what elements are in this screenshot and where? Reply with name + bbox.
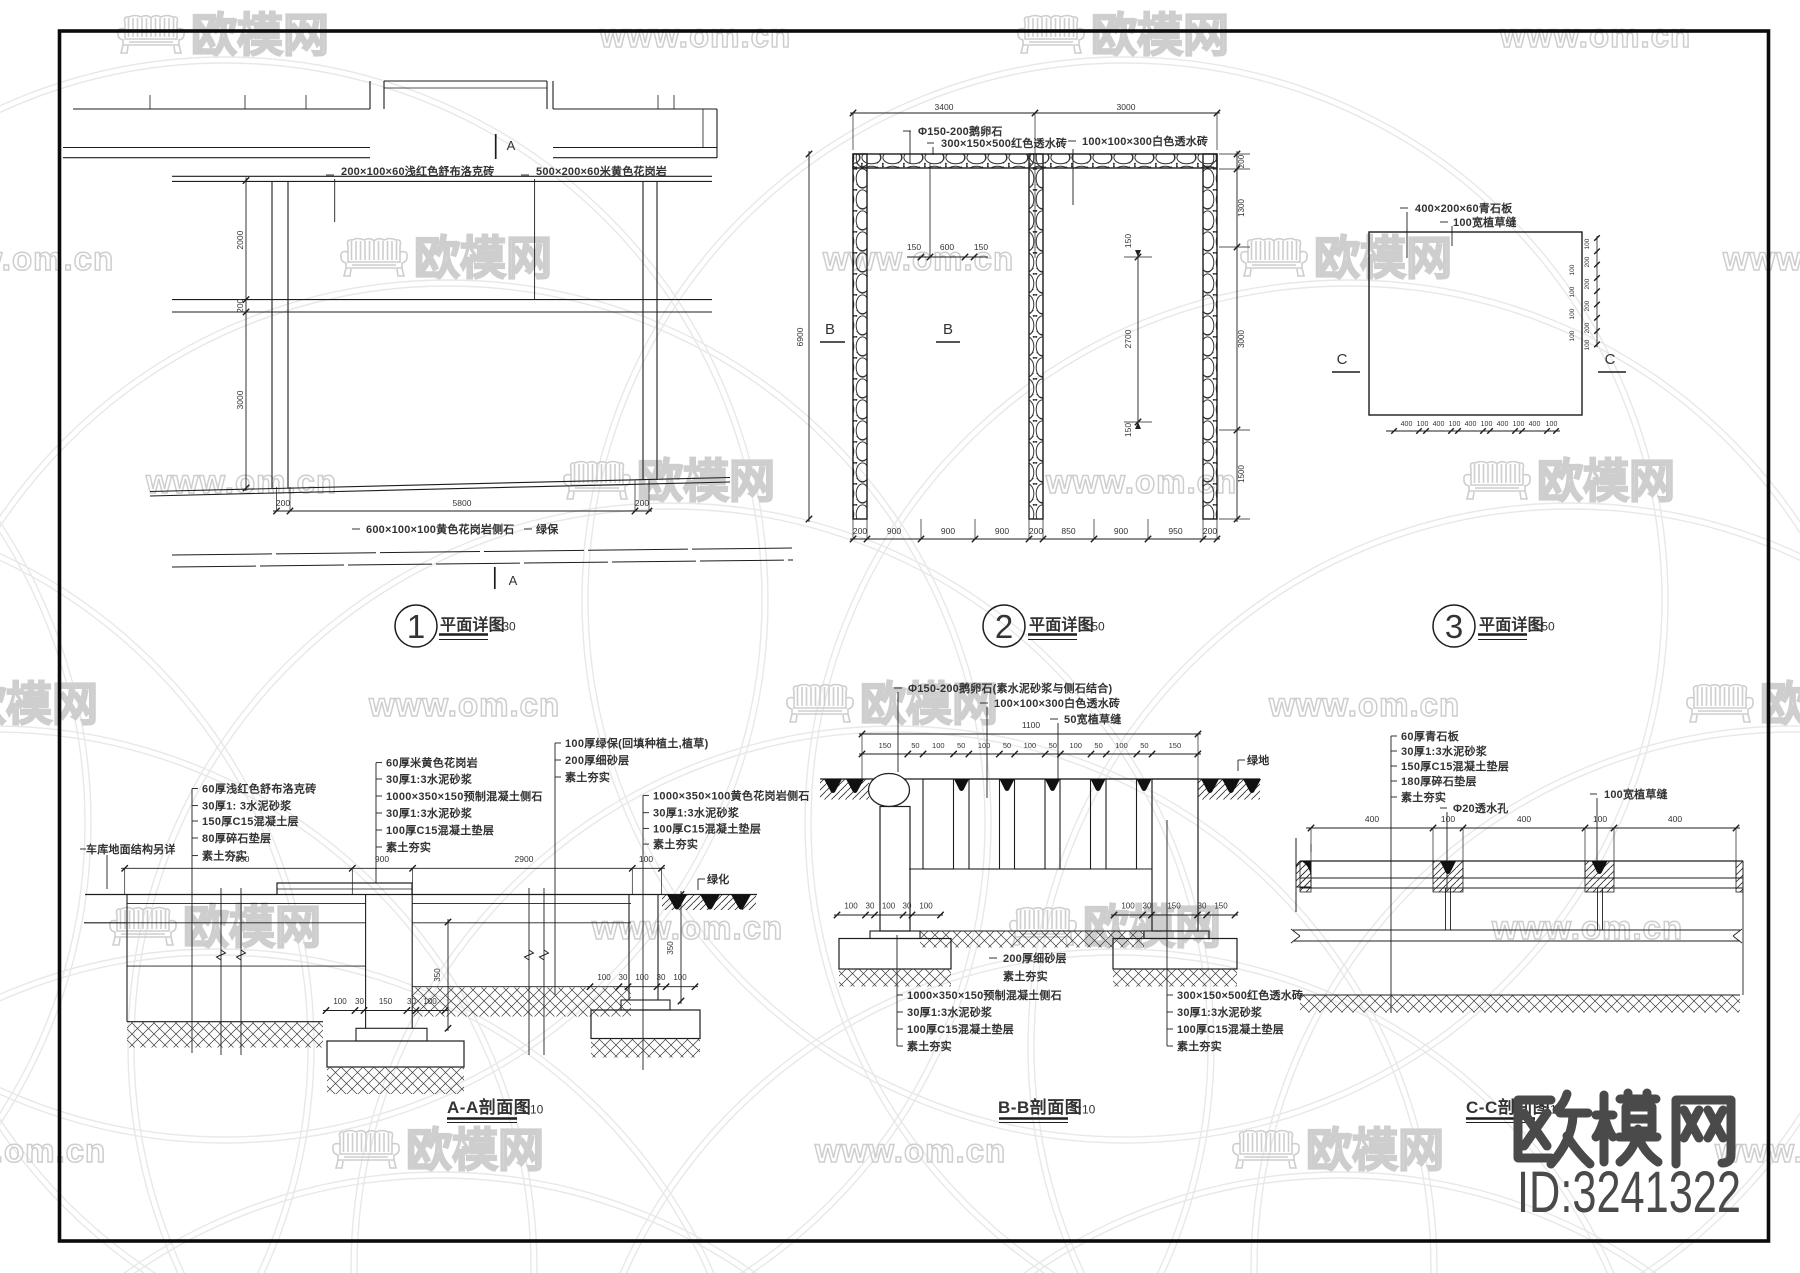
svg-text:100: 100 xyxy=(1569,330,1576,341)
site watermark logo OMW bottom-right xyxy=(1518,1093,1731,1164)
svg-text:www.om.cn: www.om.cn xyxy=(1268,686,1460,723)
svg-text:50: 50 xyxy=(1140,741,1148,750)
svg-text:车库地面结构另详: 车库地面结构另详 xyxy=(86,842,176,856)
svg-text:100厚C15混凝土垫层: 100厚C15混凝土垫层 xyxy=(386,823,494,837)
svg-text:100: 100 xyxy=(597,973,611,982)
svg-text:1300: 1300 xyxy=(1237,199,1246,217)
svg-text:www.om.cn: www.om.cn xyxy=(1722,240,1800,277)
svg-text:1000×350×150预制混凝土侧石: 1000×350×150预制混凝土侧石 xyxy=(386,789,543,803)
plan detail 3 (1:50) stone slab paving xyxy=(1332,201,1626,434)
svg-text:200×100×60浅红色舒布洛克砖: 200×100×60浅红色舒布洛克砖 xyxy=(341,164,494,178)
svg-text:100厚C15混凝土垫层: 100厚C15混凝土垫层 xyxy=(653,821,761,835)
svg-text:200: 200 xyxy=(1584,278,1591,289)
svg-text:100: 100 xyxy=(1546,421,1558,428)
svg-text:B: B xyxy=(943,321,953,338)
svg-text:B-B剖面图: B-B剖面图 xyxy=(998,1097,1082,1117)
svg-text:500×200×60米黄色花岗岩: 500×200×60米黄色花岗岩 xyxy=(536,164,667,178)
svg-text:950: 950 xyxy=(1168,526,1182,536)
svg-text:50: 50 xyxy=(911,741,919,750)
svg-text:30: 30 xyxy=(657,973,666,982)
svg-text:1:10: 1:10 xyxy=(520,1103,544,1117)
svg-text:200: 200 xyxy=(853,526,867,536)
svg-text:www.om.cn: www.om.cn xyxy=(814,1132,1006,1169)
svg-text:欧模网: 欧模网 xyxy=(637,455,775,507)
svg-text:www.om.cn: www.om.cn xyxy=(145,463,337,500)
svg-text:30: 30 xyxy=(407,997,416,1006)
svg-text:www.om.cn: www.om.cn xyxy=(599,17,791,54)
svg-text:900: 900 xyxy=(941,526,955,536)
svg-text:100厚C15混凝土垫层: 100厚C15混凝土垫层 xyxy=(1177,1022,1284,1036)
svg-text:50: 50 xyxy=(1094,741,1102,750)
svg-text:100: 100 xyxy=(1584,339,1591,350)
svg-text:欧模网: 欧模网 xyxy=(1760,678,1800,730)
svg-text:100: 100 xyxy=(1584,238,1591,249)
svg-text:400: 400 xyxy=(1497,421,1509,428)
svg-text:180厚碎石垫层: 180厚碎石垫层 xyxy=(1401,774,1477,788)
svg-text:C: C xyxy=(1605,351,1616,368)
svg-text:100宽植草缝: 100宽植草缝 xyxy=(1604,787,1668,801)
svg-text:100: 100 xyxy=(1069,741,1082,750)
svg-text:1500: 1500 xyxy=(1237,465,1246,483)
svg-text:30厚1:3水泥砂浆: 30厚1:3水泥砂浆 xyxy=(1401,744,1488,758)
svg-text:900: 900 xyxy=(1114,526,1128,536)
svg-text:欧模网: 欧模网 xyxy=(1537,455,1675,507)
svg-text:400×200×60青石板: 400×200×60青石板 xyxy=(1415,201,1513,215)
title: plan detail 1 xyxy=(395,605,437,647)
svg-text:100: 100 xyxy=(1481,421,1493,428)
svg-text:欧模网: 欧模网 xyxy=(191,9,329,61)
svg-text:350: 350 xyxy=(666,941,675,955)
svg-text:欧模网: 欧模网 xyxy=(414,232,552,284)
svg-text:5800: 5800 xyxy=(453,498,472,508)
svg-text:1:50: 1:50 xyxy=(1531,620,1555,634)
svg-text:欧模网: 欧模网 xyxy=(0,678,98,730)
svg-text:A: A xyxy=(509,573,518,588)
svg-text:30: 30 xyxy=(355,997,364,1006)
svg-text:www.om.cn: www.om.cn xyxy=(368,686,560,723)
svg-text:A: A xyxy=(507,138,516,153)
svg-text:100: 100 xyxy=(639,854,653,864)
svg-text:1:50: 1:50 xyxy=(1081,620,1105,634)
light watermark tile grid xyxy=(118,16,184,54)
svg-text:30厚1:3水泥砂浆: 30厚1:3水泥砂浆 xyxy=(907,1005,993,1019)
svg-text:3: 3 xyxy=(1445,608,1463,645)
svg-text:www.om.cn: www.om.cn xyxy=(1491,909,1683,946)
svg-text:150: 150 xyxy=(1169,741,1182,750)
svg-text:100: 100 xyxy=(1417,421,1429,428)
svg-text:100: 100 xyxy=(882,902,896,911)
svg-text:100: 100 xyxy=(932,741,945,750)
svg-text:150: 150 xyxy=(974,242,988,252)
svg-text:30厚1:3水泥砂浆: 30厚1:3水泥砂浆 xyxy=(386,772,473,786)
svg-text:30厚1:3水泥砂浆: 30厚1:3水泥砂浆 xyxy=(386,806,473,820)
svg-text:900: 900 xyxy=(995,526,1009,536)
svg-text:150: 150 xyxy=(1167,902,1181,911)
svg-text:www.om.cn: www.om.cn xyxy=(1499,17,1691,54)
svg-text:1: 1 xyxy=(407,608,425,645)
svg-text:100: 100 xyxy=(1441,814,1455,824)
svg-text:欧模网: 欧模网 xyxy=(406,1124,544,1176)
svg-text:100: 100 xyxy=(1121,902,1135,911)
svg-text:素土夯实: 素土夯实 xyxy=(565,770,610,784)
svg-text:素土夯实: 素土夯实 xyxy=(1177,1039,1222,1053)
svg-text:50: 50 xyxy=(1049,741,1057,750)
svg-text:绿地: 绿地 xyxy=(1247,753,1269,767)
svg-text:6900: 6900 xyxy=(795,327,805,346)
svg-text:100: 100 xyxy=(333,997,347,1006)
svg-text:100: 100 xyxy=(673,973,687,982)
svg-text:100: 100 xyxy=(978,741,991,750)
svg-text:Φ20透水孔: Φ20透水孔 xyxy=(1453,801,1508,815)
plan detail 2 (1:50) cobble-edged paving xyxy=(795,102,1250,542)
svg-text:100宽植草缝: 100宽植草缝 xyxy=(1453,215,1517,229)
svg-text:200厚细砂层: 200厚细砂层 xyxy=(565,753,629,767)
svg-text:600: 600 xyxy=(940,242,954,252)
svg-text:2000: 2000 xyxy=(235,230,245,249)
svg-text:200: 200 xyxy=(1584,300,1591,311)
svg-text:100: 100 xyxy=(1115,741,1128,750)
svg-text:欧模网: 欧模网 xyxy=(1091,9,1229,61)
svg-text:B: B xyxy=(825,321,835,338)
svg-text:400: 400 xyxy=(1365,814,1379,824)
svg-text:60厚米黄色花岗岩: 60厚米黄色花岗岩 xyxy=(386,756,478,770)
svg-text:60厚青石板: 60厚青石板 xyxy=(1401,729,1460,743)
svg-text:400: 400 xyxy=(1517,814,1531,824)
svg-text:200: 200 xyxy=(635,498,649,508)
svg-text:1:10: 1:10 xyxy=(1072,1103,1096,1117)
svg-text:100: 100 xyxy=(1569,264,1576,275)
svg-text:100: 100 xyxy=(1593,814,1607,824)
svg-text:素土夯实: 素土夯实 xyxy=(386,840,431,854)
svg-text:100: 100 xyxy=(1569,308,1576,319)
svg-text:200: 200 xyxy=(1237,154,1246,168)
svg-text:100: 100 xyxy=(1513,421,1525,428)
svg-text:素土夯实: 素土夯实 xyxy=(907,1039,952,1053)
svg-text:100×100×300白色透水砖: 100×100×300白色透水砖 xyxy=(1082,134,1208,148)
svg-text:100: 100 xyxy=(1449,421,1461,428)
svg-text:3000: 3000 xyxy=(235,390,245,409)
svg-text:30: 30 xyxy=(1143,902,1152,911)
svg-text:1000×350×100黄色花岗岩侧石: 1000×350×100黄色花岗岩侧石 xyxy=(653,788,810,802)
svg-text:1000×350×150预制混凝土侧石: 1000×350×150预制混凝土侧石 xyxy=(907,988,1062,1002)
svg-text:150: 150 xyxy=(1123,423,1133,437)
svg-text:100厚绿保(回填种植土,植草): 100厚绿保(回填种植土,植草) xyxy=(565,736,709,750)
svg-text:150: 150 xyxy=(1214,902,1228,911)
svg-text:素土夯实: 素土夯实 xyxy=(653,837,698,851)
svg-text:欧模网: 欧模网 xyxy=(1314,232,1452,284)
svg-text:300×150×500红色透水砖: 300×150×500红色透水砖 xyxy=(941,136,1067,150)
svg-text:C: C xyxy=(1337,351,1348,368)
svg-text:100: 100 xyxy=(635,973,649,982)
svg-text:2900: 2900 xyxy=(515,854,534,864)
svg-text:200: 200 xyxy=(276,498,290,508)
svg-text:1100: 1100 xyxy=(1022,720,1041,730)
svg-text:400: 400 xyxy=(1465,421,1477,428)
svg-text:50宽植草缝: 50宽植草缝 xyxy=(1064,712,1121,726)
svg-text:600×100×100黄色花岗岩侧石: 600×100×100黄色花岗岩侧石 xyxy=(366,522,515,536)
svg-text:100厚C15混凝土垫层: 100厚C15混凝土垫层 xyxy=(907,1022,1014,1036)
svg-text:素土夯实: 素土夯实 xyxy=(1003,969,1048,983)
svg-text:400: 400 xyxy=(1529,421,1541,428)
svg-text:200厚细砂层: 200厚细砂层 xyxy=(1003,951,1067,965)
svg-text:A-A剖面图: A-A剖面图 xyxy=(447,1097,531,1117)
section A-A (1:10) xyxy=(80,736,810,1094)
svg-text:3400: 3400 xyxy=(935,102,954,112)
svg-text:150: 150 xyxy=(379,997,393,1006)
svg-text:100: 100 xyxy=(844,902,858,911)
svg-text:100: 100 xyxy=(1569,286,1576,297)
svg-text:300×150×500红色透水砖: 300×150×500红色透水砖 xyxy=(1177,988,1303,1002)
svg-text:200: 200 xyxy=(1584,322,1591,333)
svg-text:30: 30 xyxy=(866,902,875,911)
svg-text:绿化: 绿化 xyxy=(707,872,729,886)
svg-text:2700: 2700 xyxy=(1123,329,1133,348)
svg-text:200: 200 xyxy=(1584,256,1591,267)
svg-text:200: 200 xyxy=(235,298,245,312)
svg-text:30厚1: 3水泥砂浆: 30厚1: 3水泥砂浆 xyxy=(202,799,292,813)
svg-text:2: 2 xyxy=(995,608,1013,645)
svg-text:Φ150-200鹅卵石: Φ150-200鹅卵石 xyxy=(918,124,1003,138)
svg-text:100×100×300白色透水砖: 100×100×300白色透水砖 xyxy=(994,696,1120,710)
svg-text:30: 30 xyxy=(903,902,912,911)
svg-text:ID:3241322: ID:3241322 xyxy=(1517,1160,1741,1225)
svg-text:150: 150 xyxy=(907,242,921,252)
svg-text:60厚浅红色舒布洛克砖: 60厚浅红色舒布洛克砖 xyxy=(202,782,317,796)
svg-text:900: 900 xyxy=(375,854,389,864)
svg-text:400: 400 xyxy=(1668,814,1682,824)
svg-text:素土夯实: 素土夯实 xyxy=(1401,790,1446,804)
svg-text:350: 350 xyxy=(433,968,442,982)
svg-text:30厚1:3水泥砂浆: 30厚1:3水泥砂浆 xyxy=(1177,1005,1263,1019)
svg-text:100: 100 xyxy=(423,997,437,1006)
svg-text:欧模网: 欧模网 xyxy=(183,901,321,953)
svg-text:30: 30 xyxy=(619,973,628,982)
svg-text:www.om.cn: www.om.cn xyxy=(0,1132,106,1169)
svg-text:200: 200 xyxy=(1203,526,1217,536)
svg-text:www.om.cn: www.om.cn xyxy=(591,909,783,946)
svg-text:欧模网: 欧模网 xyxy=(1306,1124,1444,1176)
svg-text:150: 150 xyxy=(1123,234,1133,248)
section B-B (1:10) xyxy=(820,681,1303,1053)
svg-text:50: 50 xyxy=(1003,741,1011,750)
svg-text:3000: 3000 xyxy=(1117,102,1136,112)
svg-text:7800: 7800 xyxy=(231,854,250,864)
title: plan detail 2 xyxy=(983,605,1025,647)
svg-text:30厚1:3水泥砂浆: 30厚1:3水泥砂浆 xyxy=(653,806,740,820)
svg-text:www.om.cn: www.om.cn xyxy=(0,240,114,277)
svg-text:150厚C15混凝土垫层: 150厚C15混凝土垫层 xyxy=(1401,759,1509,773)
svg-text:200: 200 xyxy=(1029,526,1043,536)
svg-text:50: 50 xyxy=(957,741,965,750)
svg-text:400: 400 xyxy=(1401,421,1413,428)
svg-text:100: 100 xyxy=(1024,741,1037,750)
svg-text:100: 100 xyxy=(919,902,933,911)
svg-text:3000: 3000 xyxy=(1237,330,1246,348)
svg-text:150: 150 xyxy=(879,741,892,750)
svg-text:绿保: 绿保 xyxy=(536,522,559,536)
svg-text:150厚C15混凝土层: 150厚C15混凝土层 xyxy=(202,814,299,828)
svg-text:850: 850 xyxy=(1061,526,1075,536)
svg-text:80厚碎石垫层: 80厚碎石垫层 xyxy=(202,831,271,845)
svg-text:Φ150-200鹅卵石(素水泥砂浆与侧石结合): Φ150-200鹅卵石(素水泥砂浆与侧石结合) xyxy=(908,681,1112,695)
svg-text:400: 400 xyxy=(1433,421,1445,428)
section C-C (1:10) xyxy=(1291,729,1743,1013)
svg-text:900: 900 xyxy=(887,526,901,536)
plan detail 1 (1:30) top-left xyxy=(63,81,793,589)
svg-text:1:30: 1:30 xyxy=(492,620,516,634)
title: plan detail 3 xyxy=(1433,605,1475,647)
svg-text:30: 30 xyxy=(1198,902,1207,911)
